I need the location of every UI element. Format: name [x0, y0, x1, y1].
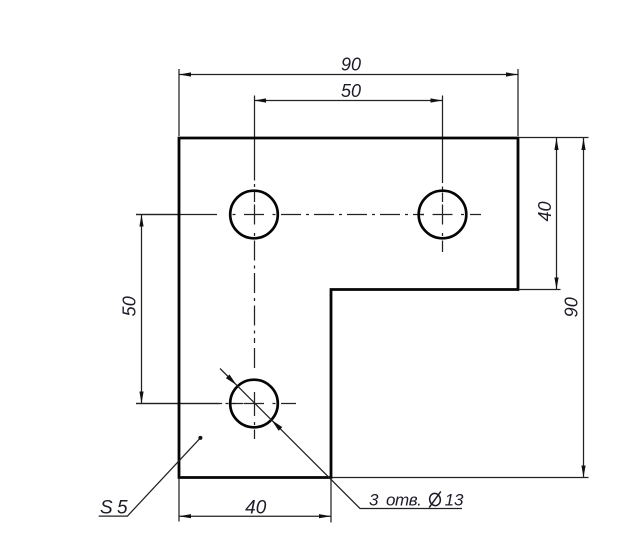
arrow 40-bottom left: [179, 514, 191, 518]
leader line of hole callout (45 deg through bottom hole): [220, 369, 462, 509]
extension line bottom horizontal: [331, 477, 589, 479]
leader of S5 note: [99, 438, 201, 516]
dimension line 40 right: [556, 138, 558, 290]
svg-text:90: 90: [341, 55, 361, 75]
arrow 50-top right: [431, 98, 443, 102]
arrow 40-right bottom: [554, 278, 558, 290]
svg-text:40: 40: [535, 201, 555, 221]
hole top-right: [419, 191, 467, 239]
arrow 90-top right: [506, 72, 518, 76]
svg-text:50: 50: [120, 296, 140, 316]
svg-text:S: S: [100, 498, 113, 519]
dimension line 50 top: [255, 100, 443, 102]
center cross right top hole: [433, 214, 453, 216]
dimension line 50 left: [141, 215, 143, 404]
extension line below part, left: [178, 479, 180, 522]
dimension line 40 bottom: [179, 515, 331, 517]
diameter symbol: [428, 491, 441, 507]
arrow 90-top left: [179, 72, 191, 76]
arrow at hole edge lower-right: [271, 420, 282, 431]
arrow 90-right top: [581, 138, 585, 150]
dimension line 90 right: [583, 138, 585, 478]
arrow 50-left top: [139, 215, 143, 227]
centerline dash right of right hole: [470, 214, 481, 216]
extension line above right hole (50-top right side): [442, 96, 444, 184]
centerline dash below right hole: [442, 241, 444, 253]
svg-text:3: 3: [369, 491, 379, 510]
svg-text:5: 5: [117, 498, 128, 519]
svg-text:13: 13: [445, 491, 464, 510]
dimension line 90 top: [179, 74, 518, 76]
center cross bottom hole: [244, 403, 264, 405]
centerline dots around top-left hole: [233, 214, 236, 216]
extension line above left hole (50-top left side): [254, 96, 256, 181]
extension line top-right horizontal: [520, 137, 589, 139]
leader dot on plate face: [198, 436, 202, 440]
hole top-left: [230, 191, 278, 239]
arrow at hole edge upper-left: [226, 375, 237, 386]
arrow 50-top left: [254, 98, 266, 102]
extension line right of 90-top dim: [517, 69, 519, 136]
extension line at bottom hole centerline, left: [136, 403, 222, 405]
svg-text:40: 40: [245, 498, 267, 519]
arrow 40-right top: [554, 138, 558, 150]
svg-text:50: 50: [341, 81, 361, 101]
extension line at top hole centerline, left: [136, 214, 179, 216]
arrow 40-bottom right: [319, 514, 331, 518]
extension line below part, right of 40-bottom: [330, 479, 332, 523]
extension line left of 90-top dim: [178, 69, 180, 136]
centerline dashes between left holes: [254, 241, 256, 261]
center cross left top hole: [244, 214, 264, 216]
centerline below bottom hole: [254, 422, 256, 425]
svg-text:отв.: отв.: [386, 491, 421, 510]
centerline horizontal through bottom hole: long first dash: [136, 403, 219, 405]
arrow 90-right bottom: [581, 466, 585, 478]
centerline horizontal through top holes: long first dash: [136, 214, 217, 216]
svg-text:90: 90: [562, 297, 582, 317]
centerline dashes between top holes: [281, 214, 301, 216]
extension line at step, right: [520, 289, 561, 291]
part outline (L-shaped plate): [179, 138, 518, 478]
centerline dots around top-right hole: [421, 214, 424, 216]
hole bottom: [230, 380, 278, 428]
arrow 50-left bottom: [139, 392, 143, 404]
